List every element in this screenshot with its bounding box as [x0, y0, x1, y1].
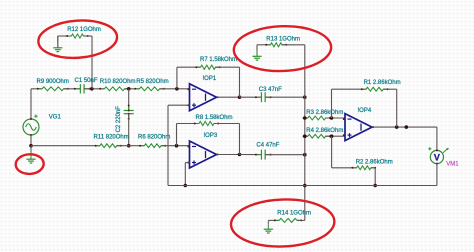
svg-text:R11 820Ohm: R11 820Ohm: [94, 135, 129, 141]
svg-text:C4 47nF: C4 47nF: [256, 142, 279, 148]
svg-text:!OP1: !OP1: [203, 76, 217, 82]
svg-text:R8 1.58kOhm: R8 1.58kOhm: [196, 115, 233, 121]
svg-text:R2 2.86kOhm: R2 2.86kOhm: [356, 160, 393, 166]
svg-text:R6 820Ohm: R6 820Ohm: [138, 135, 170, 141]
svg-text:R14 1GOhm: R14 1GOhm: [277, 211, 311, 217]
svg-text:R5 820Ohm: R5 820Ohm: [136, 79, 168, 85]
svg-text:C3 47nF: C3 47nF: [259, 87, 282, 93]
svg-text:R3 2.86kOhm: R3 2.86kOhm: [306, 110, 343, 116]
svg-text:R13 1GOhm: R13 1GOhm: [266, 37, 300, 43]
svg-text:R9 900Ohm: R9 900Ohm: [37, 79, 69, 85]
svg-text:!OP3: !OP3: [204, 133, 218, 139]
svg-text:V: V: [434, 152, 440, 162]
svg-text:VG1: VG1: [49, 115, 62, 121]
svg-text:C1 50nF: C1 50nF: [75, 78, 98, 84]
svg-text:R12 1GOhm: R12 1GOhm: [67, 27, 101, 33]
svg-text:R7 1.58kOhm: R7 1.58kOhm: [200, 57, 237, 63]
svg-text:R1 2.86kOhm: R1 2.86kOhm: [364, 80, 401, 86]
svg-text:C2 220nF: C2 220nF: [116, 106, 122, 133]
svg-text:R10 820Ohm: R10 820Ohm: [100, 79, 136, 85]
svg-text:!OP4: !OP4: [358, 108, 372, 114]
svg-text:VM1: VM1: [446, 162, 459, 168]
svg-text:R4 2.86kOhm: R4 2.86kOhm: [306, 128, 343, 134]
